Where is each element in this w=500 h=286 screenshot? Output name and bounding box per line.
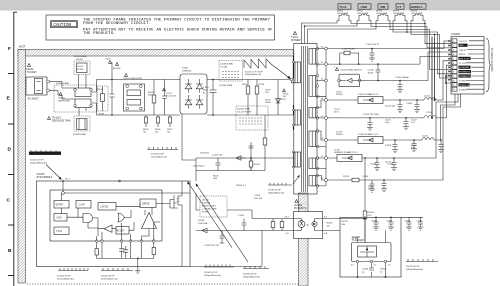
bridge DC out wires	[207, 80, 293, 116]
caution text	[83, 18, 273, 36]
svg-text:470kΩ: 470kΩ	[265, 102, 271, 104]
svg-text:POWER 15V: POWER 15V	[459, 76, 472, 78]
svg-text:C1200 R1200: C1200 R1200	[342, 49, 356, 51]
pin 14	[325, 116, 328, 119]
transformer T1101 warning label	[293, 32, 296, 35]
OR gate	[118, 213, 125, 222]
pin 17	[325, 63, 328, 66]
svg-text:R1204: R1204	[372, 221, 378, 223]
svg-text:LINE FILTER: LINE FILTER	[58, 100, 70, 102]
row tick y124	[8, 123, 14, 125]
dotted page boundary bottom	[27, 283, 306, 285]
caps on rail6	[392, 140, 398, 153]
AC inlet pin N	[47, 89, 50, 92]
svg-text:L1201 5μH: L1201 5μH	[385, 106, 396, 108]
inner box pin circles	[95, 240, 98, 243]
svg-text:10k: 10k	[143, 132, 146, 134]
svg-text:AC INLET: AC INLET	[28, 98, 40, 101]
svg-text:C1202 1000μF: C1202 1000μF	[395, 77, 410, 79]
arrow wf6 to winding	[293, 176, 299, 184]
net tag box 4	[396, 4, 404, 9]
svg-text:D: D	[8, 147, 12, 153]
drain pin drop from hatch	[292, 56, 294, 78]
transformer core	[300, 46, 302, 192]
row tick y174	[8, 174, 14, 176]
primary winding	[295, 62, 301, 83]
svg-text:IC1001 STOP: IC1001 STOP	[151, 154, 165, 156]
svg-text:CAUTION: CAUTION	[53, 24, 71, 28]
cap C1202	[397, 81, 403, 93]
thermistor TH1101 warning	[48, 117, 51, 120]
wire live	[50, 81, 63, 83]
svg-text:FILTER: FILTER	[77, 69, 84, 71]
cap on pin3 drop	[119, 249, 124, 251]
svg-text:TO MAIN (1) CN602: TO MAIN (1) CN602	[490, 48, 494, 72]
svg-text:D4SBL60: D4SBL60	[182, 70, 192, 72]
svg-text:R1113: R1113	[213, 176, 218, 178]
svg-text:T3.15AH: T3.15AH	[27, 71, 37, 74]
svg-text:LN-106: LN-106	[221, 67, 228, 69]
net tag box 3	[378, 4, 388, 9]
fan wires from beads to connector	[351, 21, 451, 44]
bus to ground drop	[137, 258, 139, 266]
LED	[298, 221, 305, 228]
svg-text:50V 47: 50V 47	[368, 188, 374, 190]
svg-text:B: B	[8, 248, 12, 254]
svg-text:[CDM/COMB]: [CDM/COMB]	[238, 109, 251, 111]
START block	[54, 201, 69, 209]
R1206 resistor vertical	[363, 211, 367, 219]
svg-text:O.C.P: O.C.P	[118, 230, 125, 233]
net tag box 2	[358, 4, 371, 9]
svg-text:DRIVE: DRIVE	[142, 203, 150, 206]
C1104 vertical with label	[110, 62, 115, 115]
wire PC to loop	[323, 219, 366, 231]
IC1001 STOP waveform bar	[29, 152, 61, 155]
cap C1211	[391, 158, 397, 171]
svg-text:POWER: POWER	[291, 39, 301, 42]
svg-text:C1223: C1223	[385, 162, 391, 164]
svg-text:2.2k: 2.2k	[265, 92, 269, 94]
scanner gray band top	[0, 0, 500, 11]
svg-text:1SS270A: 1SS270A	[198, 222, 208, 225]
secondary rail 6 (y140)	[328, 139, 423, 141]
AC inlet pin L	[47, 80, 50, 83]
svg-text:LM-106: LM-106	[202, 200, 210, 202]
waveform sketch 6	[268, 183, 292, 185]
primary top rail	[112, 79, 180, 81]
svg-text:IC1150 ①-③ STOP: IC1150 ①-③ STOP	[245, 70, 263, 73]
drain node pin	[290, 78, 293, 81]
svg-text:FROM THE SECONDARY CIRCUIT.: FROM THE SECONDARY CIRCUIT.	[83, 22, 151, 26]
svg-text:(2.5ms/Blank div): (2.5ms/Blank div)	[101, 279, 118, 281]
snubber loop above rail2	[340, 53, 359, 64]
svg-text:OSC: OSC	[57, 217, 62, 220]
svg-text:GND: GND	[459, 45, 464, 47]
svg-text:HORIZ·L: HORIZ·L	[411, 5, 423, 9]
diode d	[196, 95, 203, 109]
D1201 boxed label	[337, 155, 362, 162]
svg-text:C1210: C1210	[370, 164, 377, 166]
svg-text:(250μs/Blank div): (250μs/Blank div)	[30, 162, 47, 164]
inner element	[358, 246, 377, 257]
svg-text:R1109: R1109	[265, 100, 270, 102]
svg-text:R1206: R1206	[368, 212, 375, 214]
LM-106 drum core dashed box	[200, 196, 227, 217]
secondary rail 4 (y100)	[328, 99, 425, 101]
svg-text:[CDM/COMB]: [CDM/COMB]	[56, 83, 69, 85]
svg-text:AC250V: AC250V	[113, 67, 121, 70]
pin drop wires to bus	[97, 242, 154, 258]
svg-text:C1113 25V 470: C1113 25V 470	[204, 245, 220, 247]
svg-text:IC1001 STOP: IC1001 STOP	[30, 160, 44, 162]
pin rows	[452, 39, 457, 91]
svg-text:[CDM/COMB]: [CDM/COMB]	[221, 64, 234, 66]
res R1114 vertical	[281, 219, 283, 231]
svg-text:[CDM/COMB]: [CDM/COMB]	[74, 56, 87, 58]
pointer diagonal 2	[197, 185, 249, 263]
svg-text:L1204: L1204	[424, 96, 431, 98]
row tick y275	[8, 275, 14, 277]
svg-text:IC1201 STOP: IC1201 STOP	[406, 266, 420, 268]
rail4 riser	[436, 61, 451, 100]
svg-text:2200/25: 2200/25	[336, 134, 343, 136]
connector CN1200 body	[451, 37, 484, 95]
svg-text:A·GND: A·GND	[459, 88, 466, 91]
waveform sketch 5	[406, 259, 438, 262]
IC inner block frame	[50, 190, 162, 241]
waveform sketch 1	[58, 268, 88, 271]
svg-text:R1109: R1109	[254, 164, 261, 166]
svg-text:LN-107 FILTER: LN-107 FILTER	[238, 112, 252, 114]
svg-text:USB: USB	[361, 5, 368, 9]
gnd stubs under rail5 caps	[403, 118, 409, 130]
waveform sketch 3	[204, 265, 234, 268]
pin 11	[325, 179, 328, 182]
choke L1205 rail6	[422, 138, 434, 140]
svg-text:D1105 R1115: D1105 R1115	[193, 166, 204, 168]
secondary pin bus	[325, 49, 327, 186]
svg-text:FT: FT	[398, 5, 402, 9]
vertical link to lower filter	[78, 108, 80, 117]
fan lines inside connector to right edge	[466, 41, 484, 89]
svg-text:C1114: C1114	[254, 195, 261, 197]
aux rail upper	[196, 158, 294, 181]
svg-text:(250μs/Blank div): (250μs/Blank div)	[243, 277, 260, 279]
IC internal wires	[62, 193, 99, 228]
arrow to drain pin	[271, 64, 290, 78]
svg-text:D1201 RU3AM-T7-C9: D1201 RU3AM-T7-C9	[337, 151, 358, 154]
cap C1209	[414, 100, 420, 113]
striped primary frame: right band (secondary boundary)	[299, 193, 309, 286]
svg-text:6.3 1: 6.3 1	[411, 122, 415, 124]
LATCH block	[98, 203, 116, 211]
striped primary frame: top band	[18, 50, 294, 57]
D1202 boxed label	[358, 97, 383, 104]
photocoupler box	[294, 212, 323, 239]
svg-text:D1202 RU3AM-T7-C9: D1202 RU3AM-T7-C9	[358, 93, 379, 96]
internal pin feed wires	[97, 222, 160, 241]
TL431 loop box	[340, 217, 401, 277]
svg-text:(250μs/Blank div): (250μs/Blank div)	[204, 275, 221, 277]
svg-text:IC1002 STOP: IC1002 STOP	[101, 276, 115, 278]
svg-text:T.S.D: T.S.D	[56, 230, 62, 233]
svg-text:F: F	[8, 46, 11, 52]
svg-text:D1103: D1103	[280, 99, 285, 101]
pin 13	[325, 139, 328, 142]
AC inlet connector	[26, 77, 47, 95]
IC1200 body	[352, 243, 392, 262]
rectifier D1200 warning	[335, 68, 338, 71]
CAUTION label box	[51, 21, 78, 28]
pin 15	[325, 99, 328, 102]
brace to main	[486, 38, 491, 92]
secondary winding S3	[309, 108, 316, 118]
svg-text:CN1200: CN1200	[451, 33, 460, 36]
ground at IC bottom	[135, 267, 140, 274]
svg-text:LF1102 LINE FILTER: LF1102 LINE FILTER	[123, 78, 142, 80]
res on x265	[263, 138, 267, 145]
svg-text:50V 1: 50V 1	[334, 152, 339, 154]
D1203 boxed label	[358, 137, 383, 144]
inlet to filter wires	[58, 88, 75, 99]
res R1112	[272, 219, 274, 231]
svg-text:USB 5V: USB 5V	[459, 50, 467, 52]
svg-text:FT 15V: FT 15V	[459, 63, 466, 65]
pin 18	[325, 47, 328, 50]
svg-text:C1110 103: C1110 103	[212, 155, 223, 157]
caps inside loop	[373, 217, 379, 230]
aux winding 1	[295, 110, 301, 125]
svg-text:(250μs/Blank div): (250μs/Blank div)	[406, 269, 423, 271]
svg-text:TU·E 9V: TU·E 9V	[459, 41, 468, 43]
svg-text:D1200 F10SC4M-5517: D1200 F10SC4M-5517	[341, 70, 363, 72]
C1103 vertical cap	[162, 80, 167, 116]
svg-text:10k: 10k	[167, 132, 170, 134]
drain riser from bridge area	[182, 114, 196, 160]
secondary winding S5	[309, 158, 316, 168]
svg-text:HOT: HOT	[19, 45, 26, 49]
svg-text:IC1061 STOP: IC1061 STOP	[268, 190, 282, 192]
svg-text:R1110 4.7: R1110 4.7	[236, 185, 247, 187]
pin numbers	[453, 41, 456, 91]
svg-text:R1208: R1208	[380, 269, 387, 271]
svg-text:C1206: C1206	[368, 70, 375, 72]
node on IC top edge 2	[119, 180, 121, 182]
cap C1210	[374, 158, 380, 171]
svg-text:2200/25: 2200/25	[336, 94, 343, 96]
svg-text:C1212: C1212	[417, 221, 423, 223]
svg-text:TL431QLP: TL431QLP	[352, 239, 364, 242]
node on IC top edge	[62, 180, 64, 182]
cap C1204 on rail4	[397, 100, 403, 113]
svg-text:100μF: 100μF	[368, 72, 375, 74]
wires filter to rails	[92, 80, 112, 116]
svg-text:(500μs/Blank div): (500μs/Blank div)	[245, 74, 261, 76]
bottom bus	[97, 257, 154, 259]
OVP block	[76, 201, 91, 209]
line filter LN1102 lower dashed unit	[74, 116, 90, 131]
IC1150 outer box	[37, 181, 191, 267]
svg-text:O.V.P: O.V.P	[79, 204, 86, 207]
resistor on pin6 drop	[152, 248, 155, 255]
waveform sketch 2	[101, 268, 133, 271]
secondary rail 8 (y180)	[328, 94, 461, 180]
res R1109	[250, 158, 252, 171]
diode b	[196, 79, 203, 93]
svg-text:POWER 9V: POWER 9V	[459, 72, 471, 74]
resistor R1106b vertical	[256, 80, 258, 116]
svg-text:D·GND: D·GND	[459, 81, 466, 83]
sawtooth V-DS waveform	[244, 59, 271, 68]
svg-text:C1215 25V 1000: C1215 25V 1000	[363, 114, 379, 116]
C1106 warn label	[283, 89, 286, 92]
TSD block	[54, 227, 69, 235]
arrowheads into connector	[448, 40, 451, 81]
svg-text:HL.T: HL.T	[66, 179, 71, 181]
pin 12	[325, 157, 328, 160]
row tick y73	[8, 73, 14, 75]
snubber vertical	[249, 142, 254, 171]
aux pin connects	[293, 152, 295, 167]
svg-text:IC1062 STOP: IC1062 STOP	[243, 274, 257, 276]
line filter LF1102 block	[125, 74, 128, 77]
svg-text:100μ: 100μ	[385, 122, 389, 124]
secondary rail 7 (y158)	[328, 94, 459, 158]
svg-text:TU·E: TU·E	[340, 5, 347, 9]
resistor on pin1 drop	[95, 249, 98, 256]
svg-text:100k: 100k	[213, 178, 217, 180]
secondary winding S4	[309, 131, 316, 147]
pin 16	[325, 79, 328, 82]
diode D1106	[196, 228, 212, 232]
svg-text:50V 104: 50V 104	[254, 198, 263, 200]
svg-text:L1205: L1205	[422, 136, 429, 138]
IC1200 pins	[356, 260, 359, 263]
cap after choke rail6	[438, 140, 444, 153]
svg-text:D1106: D1106	[198, 220, 205, 222]
MOSFET Q inside IC	[174, 191, 182, 211]
photocoupler IC1100 warning	[295, 200, 298, 203]
svg-text:C1213: C1213	[405, 221, 411, 223]
rectifier D1200 boxed	[339, 74, 360, 87]
svg-text:C1212: C1212	[387, 164, 394, 166]
svg-text:10k: 10k	[327, 225, 330, 227]
svg-text:THE PRODUCTS.: THE PRODUCTS.	[83, 32, 116, 36]
cap C1201 on rail1	[369, 49, 375, 62]
svg-text:D1101: D1101	[182, 68, 189, 70]
R1104 vertical	[153, 80, 155, 116]
riser joint dots	[445, 75, 447, 77]
pointer diagonal 1	[188, 183, 232, 248]
secondary rail 2 (y64.1)	[328, 57, 437, 65]
C1206 between rails	[376, 64, 381, 80]
svg-text:LN-105: LN-105	[76, 59, 84, 61]
svg-text:820k: 820k	[148, 95, 152, 97]
wire neutral	[50, 90, 59, 92]
svg-text:AC 2200-X1: AC 2200-X1	[166, 95, 176, 98]
transformer bobbin outline	[294, 44, 317, 195]
secondary rail 5 (y117.9)	[328, 117, 425, 119]
inner top wire	[63, 181, 190, 193]
svg-text:R1105: R1105	[242, 84, 247, 86]
sheet border bracket left	[14, 12, 17, 286]
source line down	[181, 210, 183, 241]
svg-text:C1209: C1209	[406, 103, 413, 105]
diode c	[185, 95, 192, 109]
diode D1103 vertical	[276, 80, 281, 116]
degauss branch dashed box	[98, 86, 109, 111]
svg-text:DEGAUSS THM: DEGAUSS THM	[52, 120, 70, 123]
svg-text:C1104: C1104	[105, 59, 112, 61]
fuse F1101 warning label	[27, 64, 30, 67]
caution box	[46, 15, 275, 40]
svg-text:IC1001 STOP: IC1001 STOP	[57, 276, 71, 278]
svg-text:H·ON/OFF: H·ON/OFF	[459, 67, 470, 69]
caps right of loop	[406, 217, 412, 230]
primary bottom rail	[97, 114, 181, 116]
svg-text:AKB·E ON: AKB·E ON	[459, 57, 469, 60]
aux rail lower	[196, 170, 265, 172]
secondary winding S1	[309, 49, 316, 65]
cap C1110	[216, 158, 221, 171]
svg-text:R1207: R1207	[342, 221, 349, 223]
OCP block	[116, 227, 129, 235]
drive to gate wire	[156, 200, 174, 209]
svg-text:R1205: R1205	[327, 223, 334, 225]
feedback tap junction	[364, 157, 366, 159]
svg-text:C1208: C1208	[385, 145, 392, 147]
svg-text:R1106: R1106	[259, 84, 264, 86]
choke L1204 on rail4	[424, 98, 436, 100]
diode D1104 on aux rail	[236, 156, 246, 160]
resistor R1105b vertical	[247, 80, 249, 116]
waveform sketch 4	[243, 266, 269, 269]
svg-text:R1210: R1210	[343, 176, 350, 178]
svg-text:LATCH: LATCH	[101, 206, 109, 209]
arrow waveform to IC pin	[46, 165, 61, 179]
svg-text:C1105: C1105	[203, 87, 210, 89]
choke rail5	[424, 116, 436, 118]
svg-text:C1203: C1203	[362, 269, 369, 271]
drum core filter LN-106 upper dashed box	[219, 61, 243, 82]
comparator small	[104, 225, 112, 232]
secondary winding S2	[309, 76, 316, 97]
svg-text:C1216: C1216	[362, 176, 369, 178]
LF winding upper	[75, 88, 91, 97]
svg-text:START: START	[56, 204, 64, 207]
cap on rail5	[367, 118, 373, 131]
svg-text:RM 5V: RM 5V	[459, 54, 466, 56]
svg-text:STR-F6653LF: STR-F6653LF	[37, 176, 53, 179]
svg-text:C1205 50V 47: C1205 50V 47	[366, 44, 380, 46]
diode a	[185, 79, 192, 93]
svg-text:(100μs/Blank div): (100μs/Blank div)	[268, 192, 284, 194]
drum core filter LN-107 lower dashed box	[236, 106, 268, 130]
svg-text:10k: 10k	[155, 132, 158, 134]
svg-text:C: C	[7, 198, 11, 204]
waveform sketch 7	[147, 147, 178, 150]
svg-text:C1107: C1107	[265, 90, 270, 92]
svg-text:C1108 473: C1108 473	[200, 153, 209, 155]
vertical link to upper filter	[78, 75, 80, 89]
secondary winding S6	[309, 176, 316, 186]
pin stubs	[352, 218, 386, 277]
svg-text:S: S	[307, 223, 309, 227]
svg-text:D1203 RL3AM-T7-C9: D1203 RL3AM-T7-C9	[358, 133, 379, 136]
cap on rail8	[369, 180, 375, 192]
svg-text:50V 1: 50V 1	[334, 112, 339, 114]
